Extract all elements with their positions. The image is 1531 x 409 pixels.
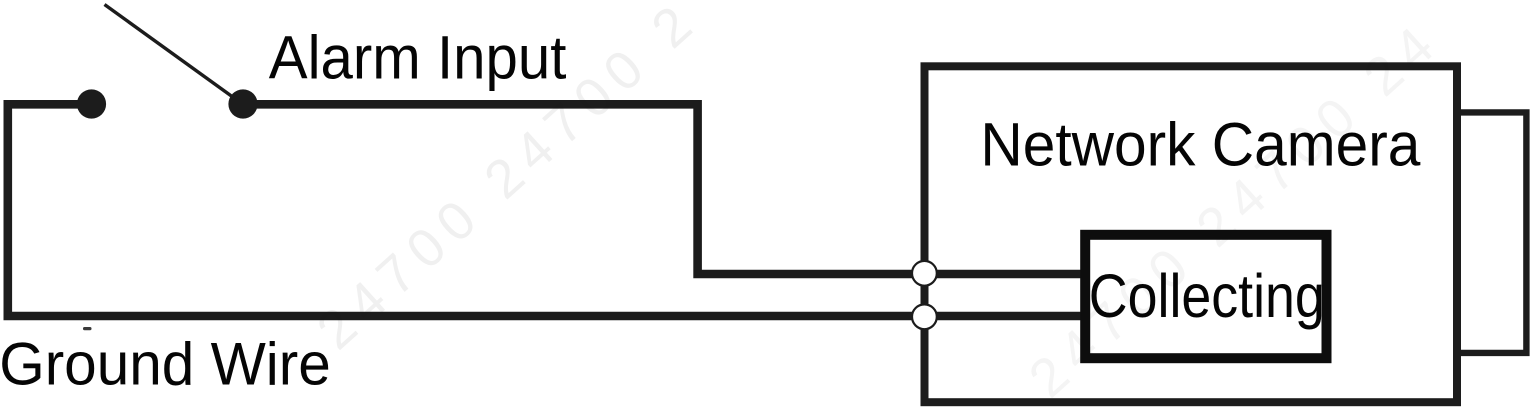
stray mark xyxy=(83,327,92,330)
svg-text:Alarm Input: Alarm Input xyxy=(269,23,567,92)
switch pole dot (left) xyxy=(77,89,106,118)
node terminal circle (alarm input) xyxy=(912,261,937,286)
svg-text:Ground Wire: Ground Wire xyxy=(0,330,331,398)
node terminal circle (ground) xyxy=(912,304,937,329)
switch lever xyxy=(105,5,240,102)
network camera side tab xyxy=(1457,112,1526,353)
network camera box xyxy=(925,66,1458,402)
collecting box xyxy=(1085,235,1326,358)
wire: ground loop (left elbow + ground run) xyxy=(8,104,1085,316)
wire: alarm input run xyxy=(243,104,1085,274)
switch throw dot (right) xyxy=(228,89,257,118)
